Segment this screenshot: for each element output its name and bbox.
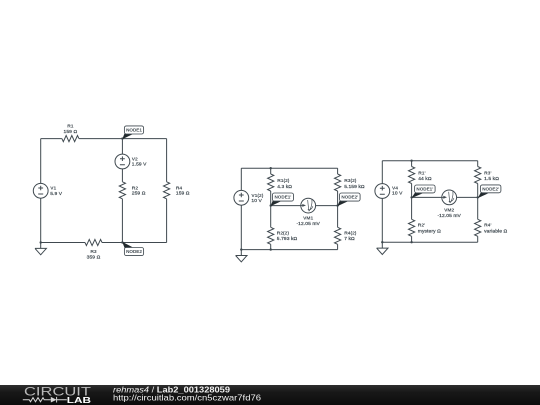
svg-text:R2(2): R2(2) (277, 231, 290, 237)
wire: C2 mid-left to voltmeter (271, 205, 301, 207)
node NODE1prime (270, 193, 293, 206)
wire: C1 left branch upper (40, 139, 42, 184)
wire: mid junction to R4' (477, 197, 479, 219)
svg-text:VM2: VM2 (444, 207, 454, 213)
voltage source V2 1.59V (115, 154, 147, 169)
wire: R4' to bottom rail (477, 236, 479, 242)
resistor R2(2) 5.793k (268, 227, 298, 244)
svg-text:10 V: 10 V (392, 191, 403, 197)
wire: R4(2) to bottom rail (337, 244, 339, 249)
wire: C3 bottom rail (382, 241, 477, 243)
junction C3 mid-right (477, 196, 479, 198)
svg-text:R3(2): R3(2) (344, 178, 357, 184)
junction C2 mid-right (336, 204, 338, 206)
node NODE1prime C3 (411, 185, 435, 198)
wire: mid junction to R2(2) (270, 206, 272, 228)
svg-text:159 Ω: 159 Ω (176, 191, 190, 197)
svg-text:5.159 kΩ: 5.159 kΩ (344, 184, 365, 190)
wire: C2 right branch top stub (337, 168, 339, 174)
wire: C3 top rail (382, 160, 477, 162)
wire: C1 top rail right segment (79, 138, 167, 140)
resistor R3' 1.5k (475, 167, 500, 184)
junction node1 (121, 137, 123, 139)
junction C2 bottom-left branch (270, 248, 272, 250)
wire: C3 right branch top stub (477, 161, 479, 167)
ground C2 (236, 250, 247, 262)
junction C3 mid-left (410, 196, 412, 198)
svg-text:LAB: LAB (67, 396, 91, 405)
svg-text:-12.05 mV: -12.05 mV (437, 213, 461, 219)
wire: C3 mid-left to voltmeter (412, 196, 442, 198)
junction C2 mid-left (270, 204, 272, 206)
junction C2 top-left branch (270, 167, 272, 169)
svg-text:-12.05 mV: -12.05 mV (296, 221, 320, 227)
svg-text:359 Ω: 359 Ω (87, 254, 101, 260)
wire: C2 left branch top stub (270, 168, 272, 174)
resistor R2' mystery (409, 219, 442, 236)
svg-text:R2': R2' (418, 223, 425, 229)
svg-text:R2: R2 (132, 185, 139, 191)
svg-text:NODE2': NODE2' (482, 187, 499, 192)
svg-text:R3: R3 (90, 249, 97, 255)
svg-text:NODE2': NODE2' (341, 195, 358, 200)
wire: C2 top rail (241, 167, 337, 169)
svg-text:V1: V1 (50, 186, 56, 192)
voltage source V1 5.9V (33, 183, 62, 198)
svg-text:NODE1: NODE1 (126, 128, 142, 133)
wire: C2 source branch lower (240, 205, 242, 249)
svg-text:V1(2): V1(2) (251, 193, 263, 199)
wire: C3 source branch upper (381, 161, 383, 184)
svg-text:V4: V4 (392, 186, 398, 192)
wire: C2 source branch upper (240, 168, 242, 190)
wire: C1 top rail left segment (41, 138, 62, 140)
wire: R2 to NODE2 (121, 199, 123, 243)
ground C1 (35, 243, 46, 255)
wire: voltmeter to C2 mid-right (316, 205, 338, 207)
wire: C3 left branch top stub (411, 161, 413, 167)
svg-text:R1': R1' (418, 170, 425, 176)
svg-text:R4(2): R4(2) (344, 231, 357, 237)
svg-text:NODE1': NODE1' (416, 187, 433, 192)
junction C3 top-left branch (410, 160, 412, 162)
junction at C1 ground (40, 241, 42, 243)
node NODE1 (122, 126, 143, 139)
node NODE2prime C3 (478, 185, 501, 198)
wire: C1 bottom rail right segment (102, 242, 167, 244)
wire: mid junction to R2' (411, 197, 413, 219)
voltage source V4 10V (375, 184, 403, 199)
resistor R1(2) 4.3k (268, 174, 293, 191)
wire: R1' to mid junction (411, 184, 413, 198)
svg-text:1.5 kΩ: 1.5 kΩ (484, 176, 499, 182)
resistor R4(2) 7k (335, 227, 357, 244)
svg-text:R1: R1 (67, 124, 74, 130)
resistor R3(2) 5.159k (335, 174, 365, 191)
node NODE2prime (337, 193, 360, 206)
wire: R2' to bottom rail (411, 236, 413, 242)
junction C3 bottom-left branch (410, 241, 412, 243)
svg-text:VM1: VM1 (303, 216, 313, 222)
junction at C2 ground (240, 248, 242, 250)
wire: R3' to mid junction (477, 184, 479, 198)
svg-text:5.9 V: 5.9 V (50, 191, 63, 197)
wire: voltmeter to C3 mid-right (457, 196, 478, 198)
resistor R1' 44k (409, 167, 432, 184)
svg-text:R3': R3' (484, 170, 491, 176)
logo resistor-diode glyph (23, 397, 67, 403)
svg-text:variable Ω: variable Ω (484, 228, 507, 234)
wire: C1 bottom rail left segment (41, 242, 85, 244)
svg-text:5.793 kΩ: 5.793 kΩ (277, 236, 298, 242)
svg-text:159 Ω: 159 Ω (64, 129, 78, 135)
svg-text:R1(2): R1(2) (277, 178, 290, 184)
wire: C1 right branch upper (166, 139, 168, 182)
wire: V2 to R2 (121, 169, 123, 182)
footer bar (0, 385, 540, 405)
svg-text:V2: V2 (132, 156, 138, 162)
svg-text:1.59 V: 1.59 V (132, 162, 147, 168)
svg-text:NODE2: NODE2 (126, 249, 142, 254)
svg-text:R4': R4' (484, 223, 491, 229)
svg-text:http://circuitlab.com/cn5czwar: http://circuitlab.com/cn5czwar7fd76 (113, 393, 262, 402)
wire: C3 source branch lower (381, 199, 383, 243)
svg-text:259 Ω: 259 Ω (132, 191, 146, 197)
resistor R4 159 ohm (164, 182, 190, 199)
wire: C1 right branch lower (166, 199, 168, 243)
voltmeter VM1 -12.05mV (296, 198, 320, 227)
voltmeter VM2 -12.05mV (437, 190, 461, 219)
wire: C1 middle branch top (121, 139, 123, 155)
wire: C1 left branch lower (40, 198, 42, 242)
junction at C3 ground (381, 241, 383, 243)
svg-text:NODE1': NODE1' (274, 195, 291, 200)
wire: mid junction to R4(2) (337, 206, 339, 228)
svg-text:mystery Ω: mystery Ω (418, 228, 441, 234)
wire: R2(2) to bottom rail (270, 244, 272, 249)
svg-text:7 kΩ: 7 kΩ (344, 236, 355, 242)
wire: R1(2) to mid junction (270, 191, 272, 206)
node NODE2 (122, 242, 143, 256)
wire: R3(2) to mid junction (337, 191, 339, 206)
svg-text:44 kΩ: 44 kΩ (418, 176, 432, 182)
resistor R3 359 ohm (85, 239, 102, 260)
resistor R4' variable (475, 219, 508, 236)
svg-text:10 V: 10 V (251, 198, 262, 204)
resistor R1 159 ohm (62, 124, 79, 142)
voltage source V1(2) 10V (234, 190, 264, 205)
wire: C2 bottom rail (241, 249, 337, 251)
svg-text:R4: R4 (176, 185, 183, 191)
resistor R2 259 ohm (119, 182, 145, 199)
svg-text:4.3 kΩ: 4.3 kΩ (277, 184, 292, 190)
junction node2 (121, 241, 123, 243)
ground C3 (377, 242, 388, 254)
